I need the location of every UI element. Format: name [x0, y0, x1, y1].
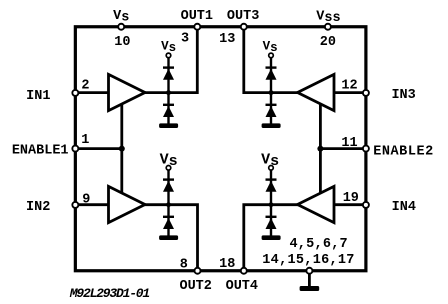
svg-text:OUT3: OUT3 — [227, 9, 259, 24]
svg-text:OUT4: OUT4 — [226, 279, 258, 294]
svg-text:Vs: Vs — [113, 9, 129, 26]
svg-text:2: 2 — [81, 78, 89, 93]
svg-text:Vs: Vs — [263, 39, 278, 55]
svg-text:11: 11 — [341, 136, 357, 151]
svg-text:13: 13 — [219, 32, 235, 47]
svg-text:19: 19 — [343, 191, 359, 206]
svg-text:9: 9 — [82, 193, 90, 208]
svg-text:1: 1 — [81, 133, 89, 148]
svg-text:IN1: IN1 — [26, 89, 50, 104]
svg-text:M92L293D1-01: M92L293D1-01 — [69, 286, 150, 301]
svg-text:ENABLE2: ENABLE2 — [373, 144, 434, 159]
svg-text:IN4: IN4 — [392, 200, 416, 215]
svg-text:18: 18 — [219, 257, 235, 272]
svg-text:Vss: Vss — [316, 9, 340, 26]
svg-text:Vs: Vs — [261, 151, 279, 170]
svg-text:Vs: Vs — [160, 151, 178, 170]
svg-text:12: 12 — [341, 78, 357, 93]
svg-text:IN2: IN2 — [26, 200, 50, 215]
svg-text:OUT1: OUT1 — [181, 9, 213, 24]
svg-text:ENABLE1: ENABLE1 — [12, 143, 69, 158]
svg-text:14,15,16,17: 14,15,16,17 — [262, 253, 354, 268]
svg-text:8: 8 — [180, 257, 188, 272]
svg-text:10: 10 — [114, 35, 130, 50]
svg-text:20: 20 — [320, 35, 336, 50]
svg-text:4,5,6,7: 4,5,6,7 — [289, 237, 347, 252]
svg-text:3: 3 — [181, 31, 189, 46]
svg-text:Vs: Vs — [161, 39, 176, 55]
svg-text:IN3: IN3 — [391, 88, 415, 103]
svg-text:OUT2: OUT2 — [179, 279, 211, 294]
